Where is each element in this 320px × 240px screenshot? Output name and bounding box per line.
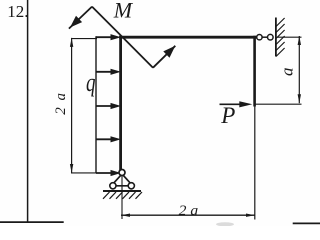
load arrow 5 [96, 172, 113, 174]
dimension 2a left: line [71, 38, 73, 173]
load arrow 1 [96, 36, 113, 38]
dimension a: top extension line [277, 36, 302, 38]
scan smudge artifact [216, 222, 234, 226]
force P arrowhead [239, 101, 252, 107]
dimension a: bottom arrowhead [298, 94, 301, 103]
svg-text:q: q [86, 68, 96, 97]
pin support base line [110, 185, 133, 187]
roller link circle 2 [268, 34, 274, 40]
dimension 2a left: top arrowhead [70, 38, 73, 47]
dimension a: top arrowhead [298, 36, 301, 45]
dimension a: line [298, 36, 300, 103]
dimension 2a bottom: left extension line [121, 176, 123, 219]
moment M zigzag: left segment [69, 7, 92, 29]
pin support hinge circle [119, 170, 125, 176]
wall hatching [276, 18, 285, 57]
distributed load line [95, 36, 97, 173]
moment M arrowhead (lower-left) [70, 16, 82, 28]
beam (horizontal frame member) [119, 36, 257, 39]
pin support roller circle left [110, 183, 116, 189]
dimension 2a bottom: right arrowhead [246, 214, 255, 217]
force P shaft [220, 103, 242, 105]
load arrow 2 [96, 71, 113, 73]
dimension 2a bottom: line [121, 214, 255, 216]
ground line [103, 190, 141, 192]
dimension 2a left: top extension line [71, 38, 97, 40]
pin support triangle right side [123, 175, 133, 186]
table cell bottom border left segment [0, 221, 64, 223]
dimension 2a bottom: left arrowhead [121, 214, 130, 217]
dimension 2a left: bottom extension line [71, 172, 97, 174]
column (vertical frame member) [119, 36, 122, 171]
svg-text:P: P [220, 103, 235, 128]
moment M diagonal through corner [92, 7, 153, 68]
load arrow 3 [96, 105, 113, 107]
dimension 2a left: bottom arrowhead [70, 164, 73, 173]
svg-text:a: a [278, 68, 297, 77]
ground hatching [103, 192, 142, 199]
moment M arrowhead (upper-right) [163, 46, 175, 58]
table cell left border [27, 0, 29, 222]
wall line [275, 18, 277, 57]
svg-text:2 a: 2 a [179, 203, 199, 219]
pin support roller circle right [128, 183, 134, 189]
svg-text:12.: 12. [7, 2, 28, 21]
roller link circle 1 [257, 35, 262, 40]
dimension a: bottom extension line [255, 103, 302, 105]
svg-text:M: M [113, 0, 134, 23]
right vertical member [253, 36, 256, 107]
right member thin extension line [254, 107, 256, 220]
svg-text:2 a: 2 a [53, 91, 69, 114]
moment M right segment [153, 46, 175, 68]
load arrow 4 [96, 138, 113, 140]
pin support triangle left side [111, 175, 121, 186]
table cell bottom border right segment [293, 222, 320, 224]
roller link bar [262, 36, 268, 38]
